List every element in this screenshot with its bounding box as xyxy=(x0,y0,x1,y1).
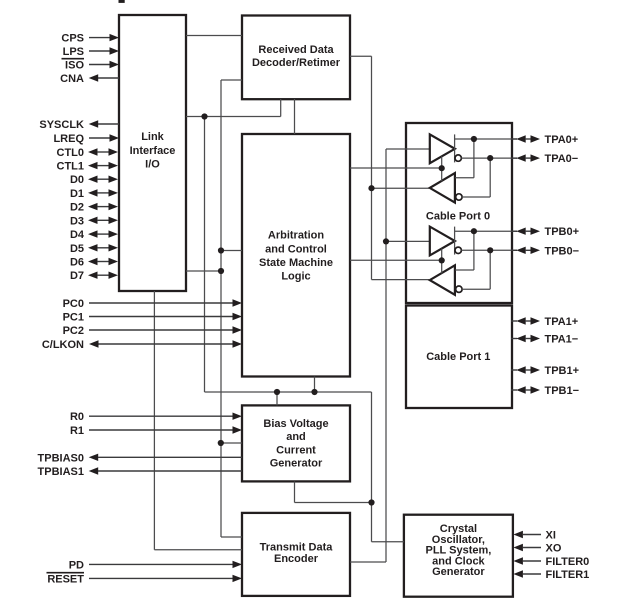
pin CTL0 (bidirectional) xyxy=(57,147,119,159)
svg-text:TPB1+: TPB1+ xyxy=(545,365,580,377)
pin TPB1− (bidirectional) xyxy=(511,385,579,397)
svg-text:I/O: I/O xyxy=(145,159,160,171)
wire: A0 minus output net xyxy=(461,158,517,197)
svg-text:Current: Current xyxy=(276,444,316,456)
pin CPS (input) xyxy=(61,33,119,45)
wire: A0 enable stub xyxy=(441,156,443,181)
block: Cable Port 1 xyxy=(406,306,512,409)
pin XI (input) xyxy=(513,530,556,542)
svg-text:FILTER1: FILTER1 xyxy=(546,569,590,581)
svg-text:Interface: Interface xyxy=(130,145,176,157)
junction at (204.5,116.5) xyxy=(201,113,207,119)
pin PD (input) xyxy=(69,559,242,571)
wire: A0 plus output net xyxy=(455,139,517,178)
pin LPS (input) xyxy=(63,46,119,58)
svg-text:Encoder: Encoder xyxy=(274,553,319,565)
svg-text:PC1: PC1 xyxy=(63,312,84,324)
pin ISO (input) xyxy=(65,60,119,72)
block: Arbitration and Control State Machine Logic xyxy=(242,134,350,377)
svg-text:Received Data: Received Data xyxy=(258,44,334,56)
block: Bias Voltage and Current Generator xyxy=(242,405,350,481)
receiver inverting bubble B0 xyxy=(456,286,462,292)
junction at (314.5,392) xyxy=(311,389,317,395)
driver inverting bubble A0 xyxy=(455,155,461,161)
svg-text:D2: D2 xyxy=(70,202,84,214)
pin TPA1− (bidirectional) xyxy=(511,334,578,346)
junction B0 enable xyxy=(439,257,445,263)
svg-text:TPB0+: TPB0+ xyxy=(545,226,580,238)
svg-text:PC0: PC0 xyxy=(63,298,84,310)
wire: Arbitration to port 0 enable (pair B) xyxy=(350,259,442,261)
pin TPA1+ (bidirectional) xyxy=(511,316,578,328)
svg-text:Generator: Generator xyxy=(270,458,323,470)
pin TPBIAS0 (output) xyxy=(38,452,242,464)
pin TPB0+ (bidirectional) xyxy=(511,226,579,238)
svg-text:XI: XI xyxy=(546,530,556,542)
wire: B0 minus output net xyxy=(461,250,517,289)
wire: Received bottom to Arbitration top xyxy=(294,99,296,134)
svg-text:TPB0−: TPB0− xyxy=(545,245,580,257)
pin RESET (input) xyxy=(47,573,242,585)
svg-text:C/LKON: C/LKON xyxy=(42,339,84,351)
pin D1 (bidirectional) xyxy=(70,188,118,200)
svg-text:and Control: and Control xyxy=(265,243,327,255)
svg-text:Cable Port 0: Cable Port 0 xyxy=(426,211,490,223)
junction A0 minus xyxy=(487,155,493,161)
svg-text:CTL0: CTL0 xyxy=(57,147,85,159)
wire: B0 plus output net xyxy=(455,231,517,270)
junction B0 plus xyxy=(471,228,477,234)
wire: receivers output net to Received Data (x=371.5) xyxy=(350,56,429,279)
pin D5 (bidirectional) xyxy=(70,243,118,255)
junction A0 enable xyxy=(439,165,445,171)
junction B0 minus xyxy=(487,247,493,253)
svg-text:RESET: RESET xyxy=(47,573,84,585)
receiver buffer A0 (triangle left) xyxy=(430,173,455,203)
junction at (221,250.5) xyxy=(218,247,224,253)
pin XO (input) xyxy=(513,543,561,555)
pin CNA (output) xyxy=(60,73,119,85)
pin PC2 (input) xyxy=(63,325,242,337)
wire: clock net vertical x=204.5 down to y=392 rail xyxy=(205,117,404,542)
pin PC0 (input) xyxy=(63,298,242,310)
svg-text:CNA: CNA xyxy=(60,73,84,85)
junction at (277,392) xyxy=(274,389,280,395)
svg-text:Transmit Data: Transmit Data xyxy=(260,542,334,554)
pin LREQ (input) xyxy=(53,133,119,145)
svg-text:TPBIAS0: TPBIAS0 xyxy=(38,452,84,464)
svg-text:Arbitration: Arbitration xyxy=(268,230,325,242)
wire: net at x=221 (Received/Arb/Link/Bias/Transmit) xyxy=(186,80,242,537)
pin R0 (input) xyxy=(70,411,242,423)
pin D4 (bidirectional) xyxy=(70,229,118,241)
junction A0 plus xyxy=(471,136,477,142)
pin TPB1+ (bidirectional) xyxy=(511,365,579,377)
wire: Transmit Data Encoder to port drivers (x=386) xyxy=(350,149,429,562)
svg-text:and: and xyxy=(286,431,306,443)
overline for ISO xyxy=(62,58,85,60)
pin R1 (input) xyxy=(70,425,242,437)
junction at (371.5,502.5) xyxy=(368,499,374,505)
svg-text:TPA0+: TPA0+ xyxy=(545,134,579,146)
wire: Arbitration to port 0 enable (pair A) xyxy=(350,167,442,169)
svg-text:XO: XO xyxy=(546,543,562,555)
wire: Link to Received Data (top) xyxy=(186,35,242,37)
pin FILTER0 (input) xyxy=(513,556,589,568)
svg-text:SYSCLK: SYSCLK xyxy=(39,119,84,131)
pin PC1 (input) xyxy=(63,312,242,324)
pin D6 (bidirectional) xyxy=(70,257,118,269)
svg-text:ISO: ISO xyxy=(65,60,84,72)
cropped glyph fragment at top xyxy=(119,0,125,3)
pin D2 (bidirectional) xyxy=(70,202,118,214)
svg-text:Link: Link xyxy=(141,131,164,143)
svg-text:Decoder/Retimer: Decoder/Retimer xyxy=(252,57,341,69)
pin FILTER1 (input) xyxy=(513,569,589,581)
svg-text:D3: D3 xyxy=(70,215,84,227)
svg-text:Cable Port 1: Cable Port 1 xyxy=(426,351,490,363)
pin TPBIAS1 (output) xyxy=(38,466,242,478)
pin TPB0− (bidirectional) xyxy=(511,245,579,257)
pin TPA0− (bidirectional) xyxy=(511,153,578,165)
pin D7 (bidirectional) xyxy=(70,270,118,282)
junction at (386,241.4) xyxy=(383,238,389,244)
svg-text:FILTER0: FILTER0 xyxy=(546,556,590,568)
junction at (371.5,188.2) xyxy=(368,185,374,191)
svg-text:R0: R0 xyxy=(70,411,84,423)
svg-text:CPS: CPS xyxy=(61,33,84,45)
pin CTL1 (bidirectional) xyxy=(57,161,119,173)
block: Received Data Decoder/Retimer xyxy=(242,16,350,100)
svg-text:LREQ: LREQ xyxy=(53,133,84,145)
driver buffer B0 (triangle right) xyxy=(430,227,455,256)
svg-text:TPBIAS1: TPBIAS1 xyxy=(38,466,84,478)
block: Transmit Data Encoder xyxy=(242,513,350,596)
svg-text:CTL1: CTL1 xyxy=(57,161,85,173)
svg-text:Logic: Logic xyxy=(281,271,310,283)
receiver inverting bubble A0 xyxy=(456,194,462,200)
driver buffer A0 (triangle right) xyxy=(430,134,455,163)
pin TPA0+ (bidirectional) xyxy=(511,134,578,146)
block: Cable Port 0 xyxy=(406,123,512,303)
pin SYSCLK (output) xyxy=(39,119,119,131)
block: Link Interface I/O xyxy=(119,15,186,291)
junction at (221,443) xyxy=(218,440,224,446)
wire: B0 enable stub xyxy=(441,249,443,274)
svg-text:State Machine: State Machine xyxy=(259,257,333,269)
svg-text:Bias Voltage: Bias Voltage xyxy=(263,418,328,430)
svg-text:D5: D5 xyxy=(70,243,84,255)
svg-text:D1: D1 xyxy=(70,188,84,200)
svg-text:D0: D0 xyxy=(70,174,84,186)
svg-text:TPA1+: TPA1+ xyxy=(545,316,579,328)
svg-text:D7: D7 xyxy=(70,270,84,282)
svg-text:R1: R1 xyxy=(70,425,84,437)
svg-text:TPA0−: TPA0− xyxy=(545,153,579,165)
overline for RESET xyxy=(47,572,85,574)
svg-text:PC2: PC2 xyxy=(63,325,84,337)
wire: Link right to Received bottom (clock net) xyxy=(186,99,281,117)
svg-text:LPS: LPS xyxy=(63,46,84,58)
svg-text:TPB1−: TPB1− xyxy=(545,385,580,397)
receiver buffer B0 (triangle left) xyxy=(430,265,455,295)
pin D3 (bidirectional) xyxy=(70,215,118,227)
svg-text:D6: D6 xyxy=(70,257,84,269)
pin C/LKON (bidirectional) xyxy=(42,339,242,351)
pin D0 (bidirectional) xyxy=(70,174,118,186)
svg-text:D4: D4 xyxy=(70,229,85,241)
junction at (221,271) xyxy=(218,268,224,274)
svg-text:PD: PD xyxy=(69,559,84,571)
svg-text:Generator: Generator xyxy=(432,566,485,578)
block: Crystal Oscillator, PLL System, and Clock Generator xyxy=(404,515,513,597)
wire: Link bottom to Transmit (x=154.4) xyxy=(154,291,242,550)
driver inverting bubble B0 xyxy=(455,247,461,253)
svg-text:TPA1−: TPA1− xyxy=(545,334,579,346)
